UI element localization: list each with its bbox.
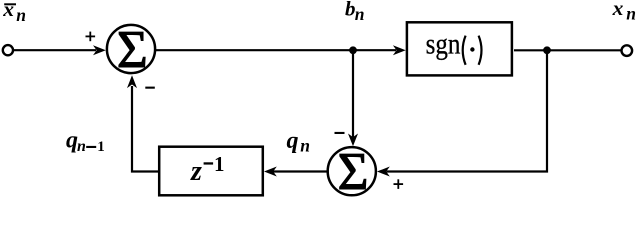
svg-text:z: z: [190, 156, 202, 187]
node label x̄n (input signal): [2, 0, 26, 25]
wire delay block left then up to summer S1 bottom (minus input): [132, 86, 158, 172]
minus sign at S1 bottom input: [145, 87, 155, 89]
block Z1 z^-1 (unit delay): [159, 147, 263, 196]
svg-text:sgn: sgn: [426, 28, 461, 60]
input terminal: [3, 45, 13, 55]
wire S2 to delay block: [273, 170, 328, 172]
node label qn: [287, 128, 311, 156]
wire sgn block to output terminal: [514, 49, 621, 51]
svg-text:x: x: [612, 0, 624, 20]
block U1 sgn(·): [407, 22, 512, 75]
node label xn (output signal): [612, 0, 636, 23]
svg-text:n: n: [626, 3, 636, 23]
svg-text:1: 1: [97, 139, 105, 155]
wire input terminal to summer S1: [14, 49, 96, 51]
plus sign at S1 left input: [86, 32, 96, 42]
svg-text:n: n: [300, 135, 310, 155]
node output junction: [543, 46, 551, 54]
op-amp summer S2: [328, 143, 376, 201]
svg-text:Σ: Σ: [117, 21, 148, 79]
svg-text:n: n: [77, 138, 86, 155]
svg-text:n: n: [355, 4, 365, 24]
svg-text:Σ: Σ: [338, 143, 369, 201]
output terminal: [622, 45, 633, 56]
wire feedback from output node down and left to summer S2: [387, 50, 548, 171]
wire S1 to sgn block: [155, 49, 396, 51]
op-amp summer S1: [107, 21, 155, 79]
plus sign at S2 right input: [394, 179, 404, 189]
svg-text:q: q: [287, 128, 299, 154]
svg-text:n: n: [16, 5, 26, 25]
node label bn: [345, 0, 365, 24]
node label qn-1: [66, 128, 105, 155]
node bn junction: [349, 46, 357, 54]
minus sign at S2 top input: [335, 132, 345, 134]
svg-text:x: x: [2, 0, 14, 21]
svg-text:1: 1: [214, 152, 225, 176]
wire bn node down to summer S2 top: [352, 50, 354, 137]
